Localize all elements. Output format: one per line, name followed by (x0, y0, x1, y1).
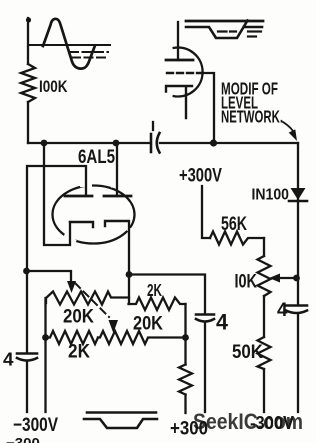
wire input top terminal (26, 17, 31, 22)
wire R5 right leg (184, 304, 186, 365)
svg-text:I00K: I00K (39, 78, 68, 96)
svg-text:+300V: +300V (179, 166, 222, 187)
svg-text:−300: −300 (6, 435, 40, 443)
wire 10K to 50K (263, 296, 265, 337)
node junction dot H (293, 275, 300, 282)
wire C3 down (204, 323, 206, 413)
tube V1 envelope (174, 48, 203, 97)
waveform input clip level dashes (70, 51, 108, 53)
waveform input sine curve (43, 19, 95, 69)
svg-text:4: 4 (277, 300, 288, 321)
wire top bus right (160, 142, 298, 144)
tube V2 right cathode (105, 221, 128, 226)
svg-text:4: 4 (3, 350, 14, 370)
capacitor C3 4 (196, 313, 214, 316)
wire C2 down (26, 362, 28, 413)
wire +300V down (202, 186, 210, 238)
tube V1 plate bar (166, 59, 193, 62)
wire V1 grid to bus (202, 73, 214, 140)
node junction dot F (182, 334, 189, 341)
svg-text:20K: 20K (63, 306, 94, 328)
node junction dot B (113, 140, 120, 147)
tube V1 cathode (166, 86, 192, 118)
node junction dot A (41, 140, 48, 147)
wire right rail (297, 143, 299, 412)
wire V2 right cathode lead (128, 221, 130, 304)
svg-text:I0K: I0K (235, 271, 258, 293)
arrow 10K wiper (269, 274, 280, 283)
tube V2 right plate (104, 195, 131, 198)
capacitor C2 4 (17, 352, 37, 355)
node junction dot E (42, 334, 49, 341)
waveform output clipped (87, 411, 156, 414)
capacitor C1 coupling (150, 134, 153, 152)
svg-text:2K: 2K (147, 280, 162, 300)
svg-text:NETWORK.: NETWORK. (221, 107, 283, 127)
wire V2 left plate lead (28, 166, 86, 196)
arrow pot R7 wiper (109, 320, 119, 333)
wire V2 left cathode lead (44, 143, 70, 245)
svg-text:50K: 50K (232, 341, 263, 363)
node junction dot G (126, 271, 133, 278)
resistor R8 vertical (179, 365, 192, 395)
resistor R1 100K (21, 64, 35, 102)
arrow pot R4 wiper (67, 281, 76, 293)
wire node G to C3 (129, 275, 205, 315)
node junction dot D (23, 268, 30, 275)
waveform clipped top (186, 20, 263, 23)
potentiometer R4 20K (46, 292, 129, 305)
wire top bus (28, 142, 149, 144)
tube V1 grid dashed (167, 72, 202, 74)
wire R8 to +300 (184, 395, 186, 414)
tube V1 plate lead (177, 22, 179, 60)
wire 56K to 10K (263, 238, 265, 256)
svg-text:2K: 2K (68, 342, 90, 363)
capacitor C4 4 (286, 304, 307, 307)
resistor R5 2K top (129, 298, 186, 311)
node junction dot C (210, 139, 217, 146)
wire left rail (26, 166, 28, 353)
tube V2 left cathode (70, 222, 93, 227)
resistor R9 50K (258, 337, 271, 369)
potentiometer R7 20K (98, 331, 186, 344)
resistor R2 56K (210, 232, 264, 245)
wire V2 right plate lead (116, 143, 118, 196)
wire pot R4 left leg down (44, 298, 46, 412)
wire 10K wiper arrow (280, 277, 297, 279)
svg-text:SeekIC.com: SeekIC.com (193, 409, 303, 434)
svg-text:IN100: IN100 (252, 187, 290, 204)
wire 50K down (263, 369, 265, 412)
wire stub above C1 (152, 122, 154, 130)
tube V2 left plate (65, 195, 92, 198)
tube V2 6AL5 envelope (53, 186, 135, 244)
svg-text:20K: 20K (133, 313, 163, 335)
potentiometer R3 10K (258, 256, 271, 296)
waveform input sine axis (30, 44, 110, 46)
tube V2 envelope gaps (66, 185, 133, 241)
resistor R6 2K bottom (46, 331, 99, 344)
svg-text:4: 4 (216, 310, 229, 335)
arrow annotation to node (283, 122, 295, 134)
svg-text:56K: 56K (221, 214, 247, 235)
wire to pot R4 wiper (27, 271, 72, 281)
diode D1 1N100 (291, 188, 306, 200)
gang dashed link (75, 283, 109, 317)
wire input vertical left (27, 18, 29, 143)
svg-text:−300V: −300V (13, 415, 58, 436)
